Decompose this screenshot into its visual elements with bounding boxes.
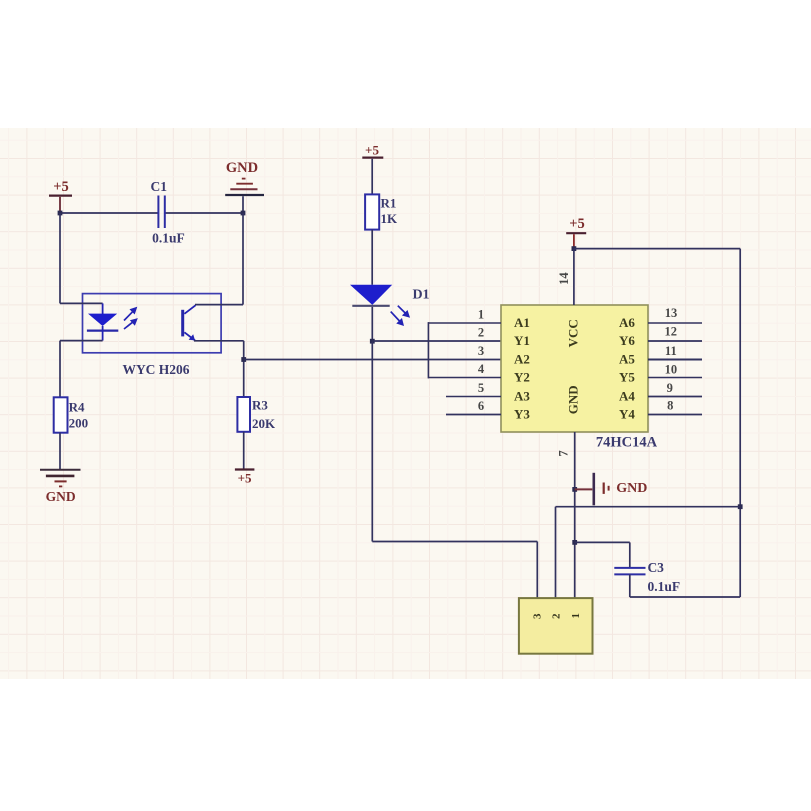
svg-text:13: 13 — [665, 306, 678, 320]
svg-text:A5: A5 — [619, 352, 635, 367]
IC right labels — [619, 315, 635, 422]
svg-text:1K: 1K — [381, 211, 399, 226]
wire D1 to IC pin2 — [372, 340, 501, 342]
pin numbers right — [665, 306, 678, 413]
connector J? 3-pin — [519, 598, 593, 654]
wire cathode — [60, 340, 103, 342]
capacitor C3 — [614, 560, 680, 594]
pin 1 stub — [428, 322, 501, 324]
resistor R4 — [54, 397, 88, 432]
pin 4 stub — [428, 377, 501, 379]
wire right rail emitter to R3 — [243, 341, 245, 397]
wire emitter — [194, 340, 244, 342]
svg-text:7: 7 — [557, 450, 571, 456]
svg-text:12: 12 — [665, 325, 678, 339]
wire pin7 down — [574, 432, 576, 598]
phototransistor — [181, 305, 195, 340]
wire right tall rail — [739, 249, 741, 597]
wire long to IC pin3 — [244, 359, 501, 361]
wire to C3 — [575, 542, 630, 567]
ground GND top — [225, 160, 264, 213]
svg-text:74HC14A: 74HC14A — [596, 435, 658, 451]
node junction right rail — [738, 504, 743, 509]
light arrows optocoupler — [124, 308, 137, 330]
ground GND bottom-left — [40, 470, 81, 504]
svg-text:8: 8 — [667, 399, 673, 413]
node junction right — [241, 211, 246, 216]
wire R1 to D1 — [371, 230, 373, 285]
ground GND right of pin7 — [575, 473, 648, 506]
svg-text:20K: 20K — [252, 416, 276, 431]
svg-text:R1: R1 — [381, 195, 397, 210]
node junction D1 — [370, 339, 375, 344]
svg-text:A1: A1 — [514, 315, 530, 330]
wire collector — [195, 304, 243, 306]
node junction left — [58, 211, 63, 216]
svg-text:D1: D1 — [412, 288, 429, 303]
wire left rail down — [59, 213, 61, 303]
svg-text:Y6: Y6 — [619, 333, 635, 348]
pin 5 stub — [446, 396, 501, 398]
svg-text:VCC: VCC — [566, 319, 581, 347]
svg-text:10: 10 — [665, 363, 678, 377]
right pin stubs 13..8 — [648, 323, 702, 415]
wire anode — [60, 303, 103, 314]
node junction emitter rail — [241, 357, 246, 362]
svg-text:Y2: Y2 — [514, 370, 530, 385]
svg-text:Y3: Y3 — [514, 407, 530, 422]
power +5 below R3 — [235, 470, 255, 486]
svg-text:GND: GND — [566, 385, 581, 414]
wire D1 down — [371, 307, 373, 341]
wire connector pin2 — [555, 507, 557, 598]
resistor R3 — [237, 397, 276, 432]
svg-text:R4: R4 — [69, 399, 85, 414]
svg-text:+5: +5 — [238, 471, 252, 486]
wire right rail down — [242, 213, 244, 305]
svg-text:5: 5 — [478, 381, 484, 395]
svg-text:2: 2 — [551, 613, 563, 619]
svg-text:200: 200 — [69, 415, 89, 430]
connector pin labels — [531, 613, 582, 619]
wire R4 to ground — [59, 433, 61, 470]
wire top-right across — [574, 248, 740, 250]
svg-text:4: 4 — [478, 362, 485, 376]
IC U1 74HC14A body — [501, 305, 648, 432]
svg-text:WYC H206: WYC H206 — [122, 362, 189, 377]
svg-text:GND: GND — [616, 481, 647, 496]
bracket pins 1-4 — [427, 322, 429, 378]
IC left labels — [514, 315, 530, 422]
svg-text:+5: +5 — [569, 216, 585, 232]
svg-text:0.1uF: 0.1uF — [647, 579, 680, 594]
svg-text:A4: A4 — [619, 389, 635, 404]
svg-text:1: 1 — [478, 308, 484, 322]
svg-text:GND: GND — [226, 160, 258, 176]
wire left rail to R4 — [59, 341, 61, 398]
resistor R1 — [365, 194, 398, 229]
svg-text:1: 1 — [570, 613, 582, 619]
svg-text:2: 2 — [478, 326, 484, 340]
pin 6 stub — [446, 414, 501, 416]
svg-text:C1: C1 — [151, 179, 168, 194]
svg-text:9: 9 — [667, 381, 673, 395]
power +5 above IC — [566, 216, 586, 249]
LED inside optocoupler — [87, 314, 118, 341]
wire gnd row — [556, 506, 741, 508]
svg-text:Y5: Y5 — [619, 370, 635, 385]
svg-text:+5: +5 — [53, 179, 69, 195]
wire C3 bottom — [630, 574, 740, 597]
optocoupler U? box WYC H206 — [83, 294, 222, 353]
svg-text:A6: A6 — [619, 315, 635, 330]
svg-text:+5: +5 — [365, 143, 379, 158]
svg-text:3: 3 — [531, 613, 543, 619]
svg-text:A2: A2 — [514, 352, 530, 367]
svg-text:3: 3 — [478, 344, 484, 358]
capacitor C1 — [151, 179, 185, 246]
node junction pin7 c3 — [572, 540, 577, 545]
svg-text:14: 14 — [557, 272, 571, 285]
pin numbers left — [478, 308, 485, 414]
power +5 top-left — [49, 179, 72, 213]
svg-text:Y1: Y1 — [514, 333, 530, 348]
node junction pin14 — [572, 246, 577, 251]
schematic sheet background — [0, 128, 811, 679]
svg-text:Y4: Y4 — [619, 407, 635, 422]
node junction pin7 gnd — [572, 487, 577, 492]
wire R3 to +5 — [243, 432, 245, 470]
svg-text:11: 11 — [665, 344, 677, 358]
light arrows D1 — [391, 306, 410, 326]
LED D1 — [350, 285, 430, 306]
svg-text:6: 6 — [478, 399, 484, 413]
svg-text:GND: GND — [46, 489, 76, 504]
wire top-left horizontal — [60, 212, 243, 214]
wire pin14 — [573, 249, 575, 305]
power +5 above R1 — [362, 143, 383, 195]
svg-text:0.1uF: 0.1uF — [152, 231, 185, 246]
svg-text:A3: A3 — [514, 389, 530, 404]
wire D1 node down to connector — [372, 341, 537, 598]
svg-text:C3: C3 — [647, 560, 664, 575]
svg-text:R3: R3 — [252, 398, 268, 413]
